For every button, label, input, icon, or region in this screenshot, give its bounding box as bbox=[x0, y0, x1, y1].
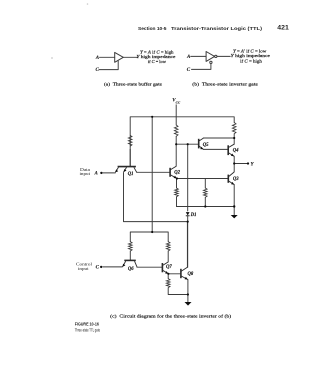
svg-text:(c) Circuit diagram for the t: (c) Circuit diagram for the three-state … bbox=[110, 313, 232, 318]
svg-text:C: C bbox=[96, 68, 100, 73]
svg-text:A: A bbox=[94, 172, 99, 177]
svg-text:(a) Three-state buffer gate: (a) Three-state buffer gate bbox=[104, 81, 162, 86]
svg-text:Q5: Q5 bbox=[203, 143, 209, 148]
svg-text:D1: D1 bbox=[190, 213, 197, 218]
svg-text:Q4: Q4 bbox=[233, 149, 239, 154]
svg-text:FIGURE 10-16: FIGURE 10-16 bbox=[75, 322, 100, 327]
svg-text:Q3: Q3 bbox=[233, 177, 239, 182]
svg-text:Three-state TTL gate: Three-state TTL gate bbox=[75, 328, 101, 333]
svg-text:if C = high: if C = high bbox=[240, 59, 263, 64]
svg-text:CC: CC bbox=[176, 100, 181, 104]
svg-text:Transistor-Transistor Logic (T: Transistor-Transistor Logic (TTL) bbox=[171, 26, 262, 32]
svg-text:input: input bbox=[80, 171, 91, 176]
svg-text:421: 421 bbox=[277, 26, 289, 32]
svg-text:C: C bbox=[187, 68, 191, 73]
svg-text:input: input bbox=[78, 266, 89, 271]
svg-text:A: A bbox=[95, 56, 100, 61]
svg-text:Y high impedance: Y high impedance bbox=[231, 53, 270, 58]
svg-text:if C = low: if C = low bbox=[148, 59, 167, 64]
svg-text:Section 10-5: Section 10-5 bbox=[138, 26, 167, 32]
svg-text:C: C bbox=[96, 265, 100, 270]
svg-text:A: A bbox=[186, 55, 191, 60]
svg-text:Q7: Q7 bbox=[166, 265, 172, 270]
svg-text:Q2: Q2 bbox=[174, 171, 180, 176]
svg-text:Q8: Q8 bbox=[188, 272, 194, 277]
svg-text:Q1: Q1 bbox=[128, 172, 134, 177]
svg-text:Y: Y bbox=[251, 162, 255, 167]
svg-text:Q6: Q6 bbox=[128, 267, 134, 272]
svg-text:(b) Three-state inverter gate: (b) Three-state inverter gate bbox=[192, 81, 258, 86]
